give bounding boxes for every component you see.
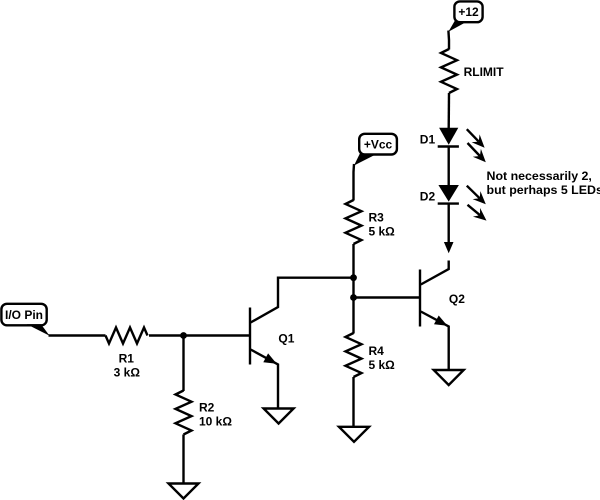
node junction dot (base node)	[350, 294, 357, 301]
svg-text:5 kΩ: 5 kΩ	[369, 225, 396, 239]
wire node to Q2 base	[354, 296, 421, 298]
node junction dot (R2 tap)	[180, 332, 187, 339]
ground R2	[169, 484, 199, 499]
svg-text:R2: R2	[199, 401, 215, 415]
svg-text:RLIMIT: RLIMIT	[464, 65, 505, 79]
wire RLIMIT to D1	[448, 93, 451, 129]
resistor R3	[346, 200, 362, 244]
ground Q1	[264, 409, 294, 424]
svg-text:D2: D2	[420, 190, 436, 204]
D2 light arrows	[467, 186, 487, 221]
svg-text:R1: R1	[119, 351, 135, 365]
ground Q2	[434, 370, 464, 385]
transistor Q1	[250, 278, 354, 409]
net label +Vcc	[354, 134, 397, 166]
LED D1	[438, 128, 459, 147]
LED D2	[438, 185, 459, 204]
svg-text:Not necessarily 2,: Not necessarily 2,	[487, 169, 592, 183]
resistor RLIMIT	[441, 49, 457, 93]
resistor R2	[176, 391, 192, 435]
wire R4 to ground	[352, 377, 354, 427]
wire I/O Pin to R1	[49, 334, 106, 336]
transistor Q2	[420, 261, 449, 371]
net label +12	[448, 1, 482, 31]
resistor R4	[346, 333, 362, 377]
svg-text:Q2: Q2	[449, 292, 465, 306]
resistor R1	[106, 328, 148, 344]
wire +Vcc to R3	[352, 164, 355, 201]
svg-text:but perhaps 5 LEDs: but perhaps 5 LEDs	[487, 183, 600, 197]
node junction dot (collector node)	[350, 274, 357, 281]
svg-text:10 kΩ: 10 kΩ	[199, 415, 232, 429]
svg-text:3 kΩ: 3 kΩ	[114, 365, 141, 379]
D1 light arrows	[467, 129, 486, 162]
svg-text:R3: R3	[369, 211, 385, 225]
wire R2 to ground	[182, 435, 184, 484]
wire R1 to Q1 base	[149, 334, 250, 336]
svg-text:+12: +12	[458, 5, 479, 19]
svg-text:Q1: Q1	[278, 332, 294, 346]
svg-text:I/O Pin: I/O Pin	[5, 308, 43, 322]
annotation note	[487, 169, 600, 197]
wire D2 to Q2 collector with arrowhead	[444, 204, 454, 254]
svg-text:D1: D1	[420, 133, 436, 147]
wire D1 to D2	[448, 147, 450, 186]
wire R3 to R4	[352, 244, 354, 334]
ground R4	[339, 427, 369, 442]
wire +12 to RLIMIT	[447, 31, 450, 50]
net label I/O Pin	[1, 304, 49, 336]
svg-text:R4: R4	[369, 344, 385, 358]
svg-text:5 kΩ: 5 kΩ	[369, 358, 396, 372]
wire node to R2	[182, 336, 184, 392]
svg-text:+Vcc: +Vcc	[364, 138, 393, 152]
